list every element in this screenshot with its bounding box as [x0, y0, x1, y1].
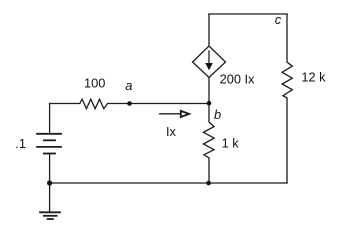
svg-text:c: c [275, 12, 282, 27]
svg-text:Ix: Ix [166, 124, 177, 139]
svg-text:a: a [125, 78, 132, 93]
svg-text:100: 100 [84, 75, 105, 90]
svg-text:b: b [214, 107, 221, 122]
svg-text:.1: .1 [15, 136, 26, 151]
svg-text:200 Ix: 200 Ix [220, 72, 255, 87]
svg-text:1 k: 1 k [222, 135, 240, 150]
svg-text:12 k: 12 k [301, 70, 326, 85]
